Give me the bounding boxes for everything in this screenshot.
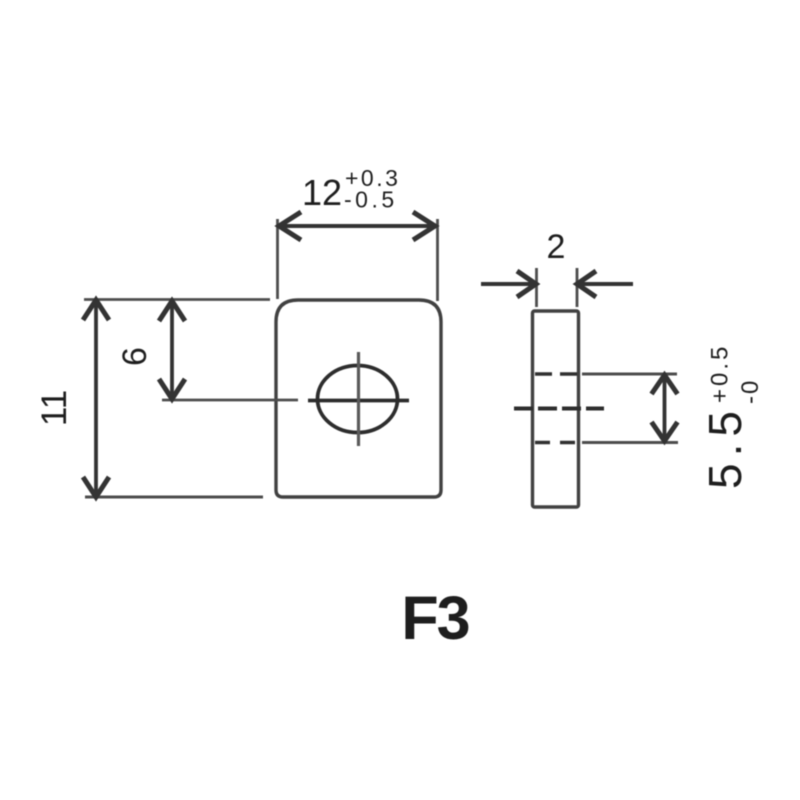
dim 11 arrow down xyxy=(83,477,109,497)
hole (front view) xyxy=(318,366,398,433)
svg-text:6: 6 xyxy=(116,347,154,366)
leader line from hole center to dim 6 xyxy=(162,399,298,402)
dim 12 line xyxy=(281,224,433,228)
dim 2 arrow pointing left xyxy=(577,271,596,297)
svg-text:5.5: 5.5 xyxy=(699,404,751,489)
dim 2 left extension line xyxy=(535,268,538,307)
dim 6 arrow up xyxy=(159,301,185,321)
hole centerline vertical xyxy=(357,352,360,446)
bottom extension line (front view) xyxy=(85,496,263,499)
dim 2 left arrow line xyxy=(481,282,534,286)
dim 5.5 arrow up xyxy=(652,375,678,394)
dim 12 arrow left xyxy=(279,212,301,240)
dim 5.5 arrow down xyxy=(652,422,678,441)
svg-text:F3: F3 xyxy=(401,584,468,652)
dim 12 right extension line xyxy=(436,219,439,301)
svg-text:2: 2 xyxy=(547,228,566,266)
dim 2 arrow pointing right xyxy=(517,271,536,297)
dim 2 right extension line xyxy=(576,268,579,307)
dim 11 arrow up xyxy=(83,300,109,320)
hidden line top (side view) xyxy=(535,372,578,376)
svg-text:11: 11 xyxy=(35,390,74,426)
dim 12 arrow right xyxy=(413,212,435,240)
dim 6 line xyxy=(170,303,174,397)
svg-text:12: 12 xyxy=(302,172,342,213)
hidden line bottom (side view) xyxy=(535,441,578,445)
svg-text:-0: -0 xyxy=(737,379,764,404)
dim 5.5 line xyxy=(663,378,667,438)
dim 6 arrow down xyxy=(159,379,185,399)
svg-text:+0.5: +0.5 xyxy=(707,344,734,403)
dim 11 line xyxy=(94,302,98,494)
extension line bottom (dim 5.5) xyxy=(582,441,678,444)
top extension line (front view) xyxy=(84,298,270,301)
dim 12 left extension line xyxy=(276,219,279,299)
dim 2 right arrow line xyxy=(579,282,633,286)
hidden centerline (side view) xyxy=(514,407,604,411)
extension line top (dim 5.5) xyxy=(582,373,677,376)
tab outline (side view) xyxy=(533,311,579,507)
svg-text:-0.5: -0.5 xyxy=(344,187,398,213)
tab outline (front view) xyxy=(276,300,441,497)
hole centerline horizontal xyxy=(308,399,409,403)
